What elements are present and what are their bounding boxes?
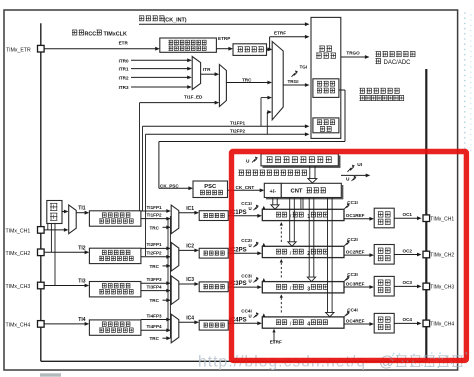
svg-text:ITR1: ITR1 — [119, 67, 129, 72]
svg-text:TI4FP3: TI4FP3 — [147, 313, 163, 318]
svg-text:OC4: OC4 — [403, 317, 413, 322]
svg-text:TI2FP2: TI2FP2 — [147, 251, 163, 256]
svg-text:OC4REF: OC4REF — [346, 318, 365, 323]
svg-text:2: 2 — [307, 251, 310, 257]
svg-text:IC2: IC2 — [186, 244, 194, 250]
svg-text:ETRF: ETRF — [274, 31, 286, 36]
svg-text:TRGI: TRGI — [288, 79, 299, 84]
svg-text:U: U — [249, 314, 252, 319]
svg-text:TRC: TRC — [150, 336, 160, 341]
svg-text:U: U — [249, 243, 252, 248]
svg-text:TIMx_CH4: TIMx_CH4 — [6, 322, 31, 328]
svg-text:U: U — [249, 206, 252, 211]
svg-text:1: 1 — [307, 214, 310, 220]
svg-text:TRC: TRC — [150, 225, 160, 230]
svg-text:TIMx_CH1: TIMx_CH1 — [6, 228, 31, 234]
svg-text:TIMx_CH2: TIMx_CH2 — [430, 253, 454, 259]
svg-text:OC1: OC1 — [403, 212, 413, 217]
svg-text:+/-: +/- — [269, 189, 276, 195]
svg-text:CK_PSC: CK_PSC — [160, 183, 179, 188]
svg-text:TI3: TI3 — [78, 279, 85, 285]
svg-text:TRC: TRC — [150, 298, 160, 303]
svg-text:TI1FP1: TI1FP1 — [147, 205, 163, 210]
svg-text:OC3REF: OC3REF — [346, 281, 365, 286]
svg-text:OC2REF: OC2REF — [346, 250, 365, 255]
svg-text:TIMx_ETR: TIMx_ETR — [6, 47, 31, 53]
svg-text:TI4FP4: TI4FP4 — [147, 324, 163, 329]
svg-text:ETR: ETR — [119, 40, 129, 45]
svg-text:TI4: TI4 — [78, 317, 85, 323]
svg-text:U: U — [246, 158, 250, 164]
svg-text:IC1: IC1 — [186, 206, 194, 212]
svg-text:TGI: TGI — [300, 64, 308, 69]
svg-text:TIMx_CH3: TIMx_CH3 — [430, 285, 454, 291]
svg-text:OC3: OC3 — [403, 280, 413, 285]
svg-text:ETRF: ETRF — [270, 340, 282, 345]
svg-text:TRC: TRC — [150, 264, 160, 269]
svg-text:UI: UI — [357, 162, 362, 168]
svg-text:TRC: TRC — [242, 77, 252, 82]
svg-text:ITR3: ITR3 — [119, 85, 129, 90]
svg-text:IC4: IC4 — [186, 315, 194, 321]
svg-text:TIMx_CH2: TIMx_CH2 — [6, 251, 31, 257]
svg-text:3: 3 — [307, 286, 310, 292]
svg-text:TI2: TI2 — [78, 245, 85, 251]
svg-text:TI1FP2: TI1FP2 — [147, 212, 163, 217]
svg-text:TI3FP3: TI3FP3 — [147, 277, 163, 282]
svg-text:OC1REF: OC1REF — [346, 213, 365, 218]
svg-text:TI3FP4: TI3FP4 — [147, 284, 163, 289]
svg-text:OC2: OC2 — [403, 248, 413, 253]
svg-text:U: U — [249, 278, 252, 283]
svg-text:TI2FP1: TI2FP1 — [147, 242, 163, 247]
svg-text:TIMxCLK: TIMxCLK — [104, 32, 127, 38]
svg-text:TI1F_ED: TI1F_ED — [184, 94, 203, 99]
svg-text:IC3: IC3 — [186, 277, 194, 283]
svg-text:TRGO: TRGO — [346, 50, 360, 55]
svg-text:ITR0: ITR0 — [119, 58, 129, 63]
svg-text:TIMx_CH4: TIMx_CH4 — [430, 322, 454, 328]
svg-text:RCC: RCC — [85, 32, 97, 38]
svg-text:U: U — [346, 177, 350, 183]
svg-text:ITR: ITR — [203, 67, 211, 72]
svg-text:TI1FP1: TI1FP1 — [230, 121, 246, 126]
svg-text:ITR2: ITR2 — [119, 75, 129, 80]
svg-text:PSC: PSC — [204, 184, 217, 190]
svg-text:CK_CNT: CK_CNT — [236, 185, 255, 190]
svg-text:TIMx_CH3: TIMx_CH3 — [6, 284, 31, 290]
svg-text:TI1: TI1 — [78, 206, 85, 212]
svg-text:TIMx_CH1: TIMx_CH1 — [430, 216, 454, 222]
svg-text:CNT: CNT — [291, 189, 303, 195]
svg-text:4: 4 — [307, 322, 310, 328]
svg-text:DAC/ADC: DAC/ADC — [384, 60, 412, 66]
svg-text:TI2FP2: TI2FP2 — [230, 128, 246, 133]
svg-text:(CK_INT): (CK_INT) — [164, 18, 187, 24]
svg-text:ETRP: ETRP — [218, 36, 230, 41]
